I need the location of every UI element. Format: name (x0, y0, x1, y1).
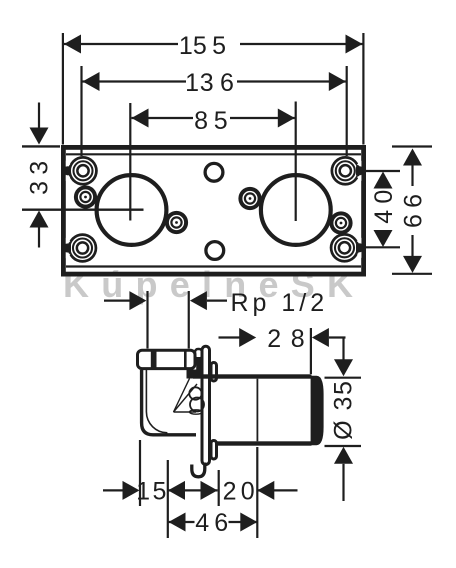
svg-text:33: 33 (26, 154, 54, 194)
svg-text:Ø 35: Ø 35 (330, 380, 358, 440)
svg-text:Rp 1/2: Rp 1/2 (231, 289, 329, 317)
svg-text:40: 40 (370, 183, 398, 223)
svg-text:3: 3 (200, 69, 220, 97)
svg-text:5: 5 (152, 478, 172, 506)
svg-text:5: 5 (193, 32, 213, 60)
svg-text:8: 8 (194, 107, 214, 135)
svg-text:5: 5 (214, 107, 234, 135)
svg-text:6: 6 (214, 509, 234, 537)
svg-text:2: 2 (267, 325, 287, 353)
svg-text:0: 0 (241, 478, 261, 506)
svg-text:6: 6 (220, 69, 240, 97)
svg-text:4: 4 (195, 509, 215, 537)
svg-text:66: 66 (400, 188, 428, 228)
svg-text:5: 5 (212, 32, 232, 60)
svg-text:8: 8 (291, 325, 311, 353)
